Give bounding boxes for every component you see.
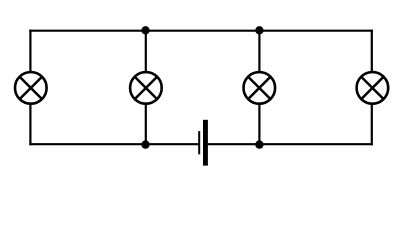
wire branch 2 [145,31,147,145]
wire branch 3 [258,31,260,145]
lamp L1 [15,72,47,104]
battery B1 [198,120,208,166]
lamp L3 [243,72,275,104]
lamp L2 [130,72,162,104]
junction top node 3 [255,26,263,34]
wire bottom bus left of battery [29,143,199,145]
junction top node 2 [141,26,149,34]
lamp L4 [357,72,389,104]
junction bottom node 3 [255,140,263,148]
wire right branch [371,30,373,146]
junction bottom node 2 [141,140,149,148]
wire top bus [29,30,373,32]
wire bottom bus right of battery [208,143,373,145]
wire left branch [29,30,31,146]
